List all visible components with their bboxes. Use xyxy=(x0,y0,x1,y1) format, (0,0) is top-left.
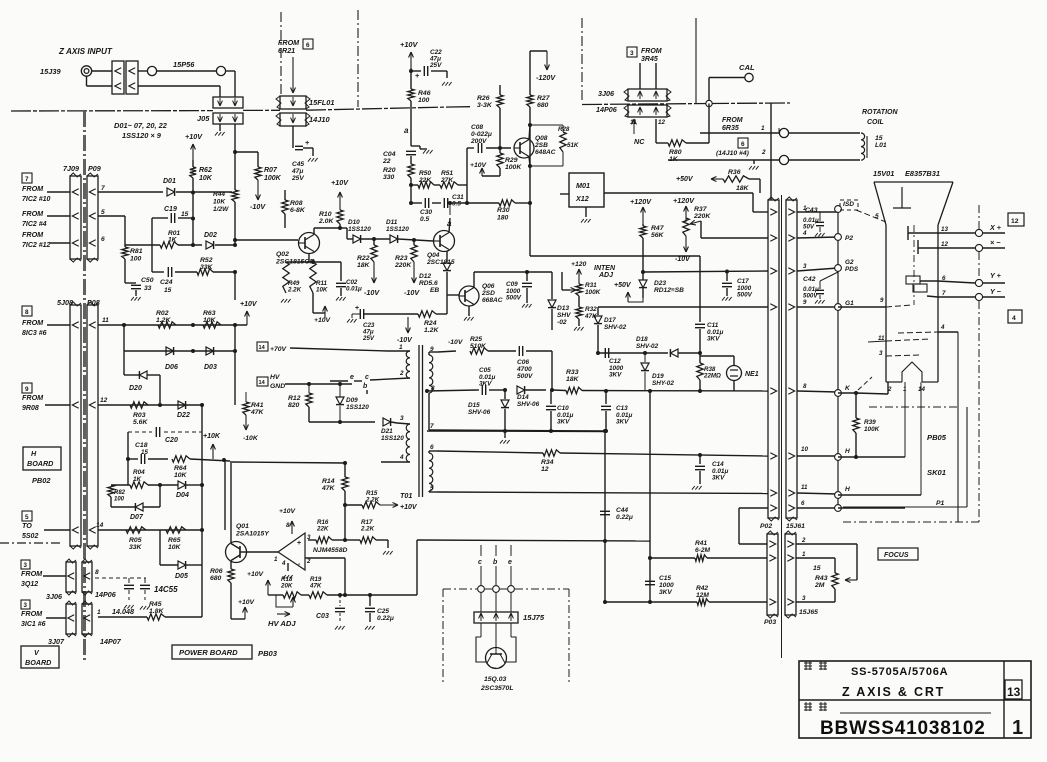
svg-text:14J10: 14J10 xyxy=(309,115,330,124)
capacitor C06 xyxy=(518,346,520,356)
wire xyxy=(143,506,160,508)
svg-text:7: 7 xyxy=(25,176,29,183)
resistor R44 xyxy=(232,190,238,202)
wire xyxy=(47,215,70,217)
svg-text:Z AXIS & CRT: Z AXIS & CRT xyxy=(842,685,945,699)
resistor R17 xyxy=(345,539,360,541)
transistor Q01 xyxy=(226,542,247,563)
wire xyxy=(473,272,475,288)
resistor R04 xyxy=(111,484,130,486)
diode D11 xyxy=(390,235,398,243)
resistor R26 xyxy=(497,95,503,108)
wire xyxy=(361,238,390,240)
svg-text:HV ADJ: HV ADJ xyxy=(268,619,296,628)
svg-text:14: 14 xyxy=(259,380,266,386)
wire xyxy=(838,507,905,509)
resistor R28 xyxy=(530,124,563,126)
op-amp U01 NJM4558D xyxy=(278,533,305,570)
svg-text:R22: R22 xyxy=(357,255,370,262)
ground xyxy=(411,145,420,147)
svg-text:P2: P2 xyxy=(845,235,853,242)
resistor R15 xyxy=(345,504,362,506)
connector P02 xyxy=(768,200,779,518)
svg-text:1: 1 xyxy=(399,344,403,351)
svg-text:3J06: 3J06 xyxy=(598,89,615,98)
terminal xyxy=(216,66,225,75)
svg-text:-10V: -10V xyxy=(250,202,266,211)
svg-text:RD5.6: RD5.6 xyxy=(419,280,438,287)
wire xyxy=(192,178,194,245)
nest verticals xyxy=(957,332,959,522)
diode D18 xyxy=(670,349,678,357)
connector J05 upper xyxy=(213,97,243,108)
supply -10V xyxy=(257,180,259,200)
transistor Q06 xyxy=(459,286,479,306)
title divider xyxy=(799,699,1031,701)
resistor R24 xyxy=(418,311,436,317)
svg-text:EB: EB xyxy=(430,287,439,294)
wire xyxy=(655,119,657,143)
svg-text:22K: 22K xyxy=(418,177,432,184)
svg-text:15: 15 xyxy=(181,211,189,218)
svg-text:Y −: Y − xyxy=(990,287,1002,296)
dash from K xyxy=(858,377,872,390)
svg-text:5: 5 xyxy=(875,213,879,220)
transistor Q02 xyxy=(299,233,320,254)
svg-text:P03: P03 xyxy=(764,619,776,626)
svg-text:R28: R28 xyxy=(558,126,570,133)
resistor R11 xyxy=(310,262,316,293)
nest dashdot row xyxy=(869,406,958,408)
board boundary vertical xyxy=(83,111,86,660)
svg-text:14P06: 14P06 xyxy=(95,590,117,599)
wire xyxy=(127,432,129,459)
connector 15J65 xyxy=(785,534,796,615)
svg-text:3: 3 xyxy=(24,562,28,569)
wire xyxy=(678,352,700,354)
wire xyxy=(416,540,418,595)
svg-text:Y +: Y + xyxy=(990,271,1002,280)
svg-text:3: 3 xyxy=(24,602,28,609)
T01 secondary lower xyxy=(429,453,433,491)
svg-text:1.2K: 1.2K xyxy=(424,327,439,334)
zener D15 xyxy=(504,390,506,399)
wire xyxy=(391,422,397,423)
terminal xyxy=(779,155,788,164)
wire xyxy=(582,390,768,393)
svg-text:NE1: NE1 xyxy=(745,371,759,378)
svg-text:R24: R24 xyxy=(424,320,437,327)
svg-text:12M: 12M xyxy=(696,592,709,599)
svg-text:15J61: 15J61 xyxy=(786,523,805,530)
svg-text:47K: 47K xyxy=(309,583,322,590)
diode D06 xyxy=(166,347,174,355)
wire xyxy=(639,63,641,89)
boundary xyxy=(443,588,477,590)
svg-text:R81: R81 xyxy=(130,248,143,255)
svg-text:C45: C45 xyxy=(292,161,304,168)
svg-text:25V: 25V xyxy=(362,335,375,342)
svg-text:P02: P02 xyxy=(760,523,772,530)
svg-text:C20: C20 xyxy=(165,437,178,444)
svg-text:a: a xyxy=(404,126,409,135)
svg-text:R25: R25 xyxy=(470,336,482,343)
wire xyxy=(186,484,202,486)
svg-text:15: 15 xyxy=(875,135,883,142)
diode D02 xyxy=(206,241,214,249)
wire xyxy=(458,184,467,186)
svg-text:SHV-02: SHV-02 xyxy=(604,324,627,331)
title kanji meishou xyxy=(804,662,812,664)
bus x838 xyxy=(837,209,839,510)
wire xyxy=(190,459,230,461)
svg-text:BOARD: BOARD xyxy=(25,658,51,667)
diode D14 xyxy=(517,386,525,394)
svg-text:R64: R64 xyxy=(174,465,187,472)
wire xyxy=(98,324,247,326)
resistor R45 xyxy=(147,614,165,620)
ground xyxy=(219,124,221,131)
ground xyxy=(753,160,755,164)
transistor Q04 xyxy=(434,231,455,252)
svg-text:3: 3 xyxy=(803,263,807,270)
svg-text:33K: 33K xyxy=(129,544,143,551)
svg-text:D22: D22 xyxy=(177,412,190,419)
center line xyxy=(781,195,783,658)
wire xyxy=(488,350,516,352)
svg-text:NJM4558D: NJM4558D xyxy=(313,547,347,554)
CRT grid stem xyxy=(901,187,903,208)
svg-text:+70V: +70V xyxy=(270,346,288,353)
connector 14P06 top xyxy=(628,105,667,117)
wire xyxy=(230,463,232,544)
wire M01 out xyxy=(604,192,753,194)
capacitor C dashed2 xyxy=(144,578,146,583)
zener D13 xyxy=(551,272,553,299)
svg-text:7IC2 #12: 7IC2 #12 xyxy=(22,242,51,249)
resistor R65 xyxy=(166,527,186,533)
resistor R30 xyxy=(499,200,515,206)
wire xyxy=(308,254,310,263)
svg-text:+50V: +50V xyxy=(614,282,632,289)
svg-text:47K: 47K xyxy=(250,409,265,416)
svg-text:R12: R12 xyxy=(288,395,301,402)
svg-text:500V: 500V xyxy=(517,373,533,380)
wire xyxy=(707,557,767,559)
svg-text:0.22μ: 0.22μ xyxy=(377,615,394,622)
svg-text:R45: R45 xyxy=(149,601,162,608)
svg-text:D01~ 07, 20, 22: D01~ 07, 20, 22 xyxy=(114,121,168,130)
resistor R07 xyxy=(255,167,261,180)
svg-text:ISD: ISD xyxy=(843,201,854,208)
connector 15FL01 xyxy=(280,96,306,109)
svg-text:E8357B31: E8357B31 xyxy=(905,169,940,178)
svg-text:2: 2 xyxy=(801,537,806,544)
svg-text:3: 3 xyxy=(879,350,883,357)
ref box 6b xyxy=(738,138,748,148)
svg-text:1SS120: 1SS120 xyxy=(381,435,404,442)
svg-text:10K: 10K xyxy=(199,175,213,182)
svg-text:R41: R41 xyxy=(695,540,707,547)
supply -10V xyxy=(407,317,409,333)
resistor R64 xyxy=(172,456,190,462)
svg-text:330: 330 xyxy=(383,174,395,181)
svg-text:100K: 100K xyxy=(264,175,282,182)
svg-text:7IC2 #4: 7IC2 #4 xyxy=(22,221,47,228)
svg-text:2M: 2M xyxy=(814,582,825,589)
svg-text:2: 2 xyxy=(306,558,311,565)
supply +10K xyxy=(212,444,214,459)
svg-text:6: 6 xyxy=(741,141,745,148)
svg-text:14P06: 14P06 xyxy=(596,105,618,114)
resistor R49 xyxy=(283,262,289,293)
svg-text:100: 100 xyxy=(114,496,125,502)
wire xyxy=(178,244,202,246)
ground xyxy=(585,207,587,217)
wire pin5 row xyxy=(437,492,768,494)
junction xyxy=(158,403,162,407)
svg-text:R02: R02 xyxy=(156,310,169,317)
svg-text:+120: +120 xyxy=(571,261,587,268)
svg-text:TO: TO xyxy=(22,521,32,530)
svg-text:3R45: 3R45 xyxy=(641,56,658,63)
wire xyxy=(796,543,857,545)
boundary vertical xyxy=(695,18,697,103)
ref box 12 xyxy=(1008,213,1024,226)
label FOCUS box xyxy=(878,548,918,560)
svg-text:b: b xyxy=(493,559,498,566)
svg-text:15: 15 xyxy=(164,287,172,294)
title kanji zuban xyxy=(804,703,812,705)
svg-text:D06: D06 xyxy=(165,364,178,371)
svg-text:200V: 200V xyxy=(470,138,487,145)
svg-text:R44: R44 xyxy=(213,191,225,198)
svg-text:CAL: CAL xyxy=(739,63,755,72)
wire xyxy=(47,324,70,326)
svg-text:5: 5 xyxy=(25,514,29,521)
svg-text:(14J10 #4): (14J10 #4) xyxy=(716,150,750,157)
svg-text:500V: 500V xyxy=(803,293,818,300)
transistor 15Q03 case xyxy=(476,637,486,662)
svg-text:R62: R62 xyxy=(199,167,212,174)
diode D01 xyxy=(167,188,175,196)
connector 3J06 xyxy=(66,562,76,592)
svg-text:D01: D01 xyxy=(163,178,176,185)
wire xyxy=(797,391,838,392)
wire xyxy=(398,239,433,241)
svg-text:C25: C25 xyxy=(377,608,389,615)
resistor R41b xyxy=(245,392,247,402)
resistor R81 xyxy=(122,247,128,259)
junction ISD xyxy=(835,206,842,213)
junction H xyxy=(835,454,842,461)
svg-text:4: 4 xyxy=(802,230,807,237)
wire xyxy=(451,202,499,204)
diode D03 xyxy=(206,347,214,355)
svg-text:R05: R05 xyxy=(129,537,142,544)
ground xyxy=(578,319,580,326)
svg-text:c: c xyxy=(478,559,482,566)
svg-text:500V: 500V xyxy=(737,292,753,299)
nest dashdot bottom xyxy=(843,521,979,523)
wire xyxy=(165,616,202,618)
svg-text:C15: C15 xyxy=(659,575,671,582)
svg-text:G1: G1 xyxy=(845,300,854,307)
resistor R41 xyxy=(695,555,707,561)
svg-text:6R35: 6R35 xyxy=(722,125,739,132)
wire xyxy=(305,557,345,559)
wire xyxy=(176,191,232,193)
svg-text:J05: J05 xyxy=(197,114,210,123)
svg-text:15Q.03: 15Q.03 xyxy=(484,676,507,683)
capacitor C11 xyxy=(699,256,701,322)
svg-text:11: 11 xyxy=(102,317,109,324)
diode D21 xyxy=(383,418,391,426)
svg-text:FROM: FROM xyxy=(722,117,743,124)
svg-text:1000: 1000 xyxy=(659,582,674,589)
wire xyxy=(201,405,203,617)
resistor R34 xyxy=(543,450,560,456)
svg-text:H: H xyxy=(845,448,850,455)
capacitor C15 xyxy=(645,580,655,582)
ref box 3b xyxy=(21,600,30,609)
svg-text:2SD: 2SD xyxy=(481,290,495,297)
wire xyxy=(44,529,70,531)
svg-text:3KV: 3KV xyxy=(479,381,492,388)
svg-text:-10V: -10V xyxy=(364,288,380,297)
svg-text:100K: 100K xyxy=(585,289,601,296)
svg-text:10K: 10K xyxy=(168,544,182,551)
resistor R10 xyxy=(337,210,343,224)
terminal c xyxy=(478,586,485,593)
wire xyxy=(234,325,236,405)
wire col 605 xyxy=(604,431,606,602)
wire R41 row xyxy=(650,557,695,559)
terminal X- xyxy=(975,244,982,251)
svg-text:15: 15 xyxy=(141,449,148,456)
connector 14P06b xyxy=(82,562,92,592)
svg-text:1/2W: 1/2W xyxy=(213,206,229,213)
supply +10V xyxy=(268,594,283,596)
zener D23 xyxy=(639,280,647,288)
resistor R22 xyxy=(371,245,377,262)
resistor R16 xyxy=(308,539,316,541)
svg-text:1K: 1K xyxy=(168,237,178,244)
board boundary xyxy=(11,110,213,112)
svg-text:R80: R80 xyxy=(669,149,682,156)
capacitor C44 xyxy=(600,510,610,512)
junction xyxy=(191,349,195,353)
diode D22 xyxy=(178,401,186,409)
wire H1 xyxy=(904,382,906,457)
wire xyxy=(45,404,70,406)
boundary line xyxy=(0,542,62,544)
wire xyxy=(235,239,298,241)
connector box B xyxy=(126,61,138,94)
svg-text:FROM: FROM xyxy=(22,393,44,402)
svg-text:C08: C08 xyxy=(471,124,483,131)
svg-text:D02: D02 xyxy=(204,232,217,239)
junction P2 xyxy=(835,234,842,241)
wire xyxy=(292,126,294,142)
wire xyxy=(410,68,412,89)
resistor R51 xyxy=(434,184,440,186)
terminal xyxy=(147,66,156,75)
connector 15J61 xyxy=(786,200,797,518)
svg-text:ADJ: ADJ xyxy=(598,272,614,279)
wire xyxy=(560,453,768,456)
svg-text:× −: × − xyxy=(990,238,1001,247)
connector 14P07 xyxy=(82,604,92,634)
capacitor C25 xyxy=(365,607,375,609)
svg-text:C43: C43 xyxy=(805,207,818,214)
junction xyxy=(191,323,195,327)
svg-text:680: 680 xyxy=(210,575,222,582)
svg-text:-02: -02 xyxy=(557,319,567,326)
connector 7J09 xyxy=(70,176,81,259)
svg-text:R26: R26 xyxy=(477,95,490,102)
resistor R20 xyxy=(410,156,412,164)
wire pin6 row xyxy=(437,451,543,453)
wire xyxy=(709,601,767,603)
wire xyxy=(551,351,553,390)
svg-text:10: 10 xyxy=(801,446,808,453)
svg-text:SHV-06: SHV-06 xyxy=(468,409,491,416)
connector J05 lower xyxy=(213,113,243,124)
svg-text:0-022μ: 0-022μ xyxy=(471,131,492,138)
svg-text:R06: R06 xyxy=(210,568,223,575)
junction G2 xyxy=(835,265,842,272)
svg-text:-10V: -10V xyxy=(675,256,691,263)
svg-text:SHY-02: SHY-02 xyxy=(652,380,674,387)
svg-text:BOARD: BOARD xyxy=(27,459,53,468)
resistor R03 xyxy=(130,402,148,408)
junction xyxy=(603,539,607,543)
svg-text:COIL: COIL xyxy=(867,119,884,126)
node a xyxy=(449,203,451,215)
svg-text:FOCUS: FOCUS xyxy=(884,552,909,559)
wire xyxy=(124,259,126,283)
input terminal 15J39 xyxy=(81,66,91,76)
capacitor C08 xyxy=(467,147,474,149)
resistor R02 xyxy=(158,322,176,328)
wire xyxy=(560,193,569,195)
svg-text:R47: R47 xyxy=(651,225,665,232)
wire xyxy=(708,104,710,144)
svg-text:C06: C06 xyxy=(517,359,529,366)
svg-text:14C55: 14C55 xyxy=(154,585,178,594)
wire xyxy=(410,101,412,146)
svg-text:0.5: 0.5 xyxy=(420,216,429,223)
supply +10V xyxy=(312,293,314,313)
svg-text:9: 9 xyxy=(880,297,884,304)
wire xyxy=(739,507,768,509)
resistor R23 xyxy=(411,245,417,262)
svg-text:+120V: +120V xyxy=(630,197,652,206)
wire xyxy=(285,383,352,385)
svg-text:100K: 100K xyxy=(864,426,880,433)
svg-text:14.048: 14.048 xyxy=(112,607,134,616)
svg-text:GND: GND xyxy=(270,383,285,390)
supply +10V xyxy=(380,504,398,506)
svg-text:R03: R03 xyxy=(133,412,146,419)
wire xyxy=(797,211,838,213)
svg-text:-10K: -10K xyxy=(243,435,259,442)
wire xyxy=(838,494,921,496)
svg-text:1SS120: 1SS120 xyxy=(348,226,371,233)
svg-text:33K: 33K xyxy=(200,264,214,271)
sheet box 13 xyxy=(1005,680,1022,699)
